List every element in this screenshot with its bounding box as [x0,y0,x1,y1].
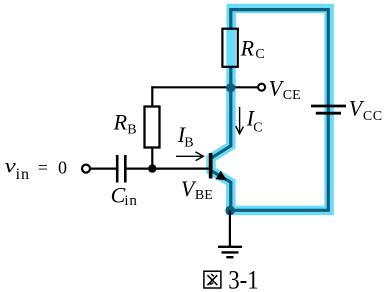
highlighted current loop band (light cyan) [211,9,329,211]
battery V_CC plate short [316,112,341,115]
svg-text:0: 0 [58,157,67,177]
arrow I_B [176,152,203,161]
svg-text:CC: CC [363,109,383,124]
node dot base [148,164,156,172]
svg-text:BE: BE [195,188,213,203]
highlighted current loop line (dark teal) [211,10,328,211]
arrow I_C [236,107,244,134]
resistor R_B body [145,107,160,148]
ground symbol [218,246,242,248]
terminal V_CE open circle [258,84,265,91]
svg-text:CE: CE [283,88,301,103]
svg-text:B: B [127,123,136,138]
svg-text:C: C [255,47,264,62]
svg-text:R: R [113,110,128,135]
caption 図 glyph [204,271,221,288]
svg-text:=: = [38,157,48,177]
transistor Q1 base bar [209,153,213,179]
svg-text:3-1: 3-1 [228,265,259,292]
ground wire vertical [229,210,231,247]
capacitor C_in plate right [124,155,127,183]
transistor Q1 emitter arrowhead [215,171,226,181]
battery V_CC plate long [311,105,346,108]
wire input to capacitor [91,168,116,170]
capacitor C_in plate left [116,155,119,183]
svg-text:in: in [124,193,137,209]
wire R_B bottom vertical [151,148,153,169]
node dot emitter (teal) [225,206,235,216]
node dot collector junction (teal) [226,83,235,92]
wire V_CE horizontal [152,86,257,88]
wire capacitor to base [127,168,210,170]
svg-text:C: C [111,182,126,207]
svg-text:C: C [253,120,262,135]
wire R_B top vertical [151,86,153,107]
svg-text:B: B [184,136,193,151]
svg-text:R: R [240,35,255,60]
resistor R_C body [224,30,237,66]
terminal input open circle [82,165,90,173]
svg-text:in: in [16,166,30,183]
